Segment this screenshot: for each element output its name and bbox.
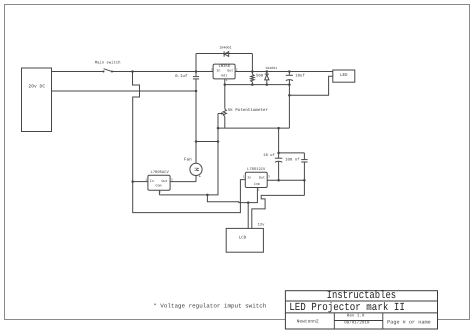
svg-text:Out: Out — [161, 179, 167, 184]
svg-text:3: 3 — [211, 69, 213, 72]
svg-text:1: 1 — [226, 79, 228, 82]
svg-text:Main switch: Main switch — [95, 61, 121, 66]
svg-text:Com: Com — [254, 182, 260, 187]
svg-text:1N4001: 1N4001 — [265, 66, 277, 70]
svg-text:LM350: LM350 — [219, 64, 231, 69]
svg-text:M: M — [193, 167, 200, 171]
svg-text:1N4001: 1N4001 — [219, 46, 231, 51]
svg-text:5k Potentiometer: 5k Potentiometer — [228, 107, 269, 113]
svg-text:2: 2 — [258, 188, 260, 191]
svg-text:3: 3 — [171, 179, 173, 182]
svg-text:Out: Out — [259, 175, 265, 180]
svg-text:0.1uf: 0.1uf — [175, 74, 188, 79]
svg-text:Page # or name: Page # or name — [387, 319, 431, 325]
svg-text:Adj: Adj — [221, 73, 227, 78]
svg-text:L78S12CV: L78S12CV — [247, 167, 266, 172]
svg-text:3: 3 — [268, 176, 270, 179]
svg-text:12v: 12v — [258, 222, 266, 227]
svg-text:Newtonn2: Newtonn2 — [297, 319, 319, 325]
svg-text:+: + — [199, 175, 202, 180]
svg-text:LED: LED — [340, 73, 348, 78]
svg-text:Rev 1.0: Rev 1.0 — [347, 313, 365, 318]
svg-text:* Voltage regulator imput swit: * Voltage regulator imput switch — [153, 302, 267, 309]
svg-text:L7805ACV: L7805ACV — [150, 170, 169, 175]
svg-text:Com: Com — [155, 184, 161, 189]
svg-text:Instructables: Instructables — [327, 290, 397, 302]
svg-text:2: 2 — [236, 69, 238, 72]
svg-text:In: In — [150, 179, 154, 184]
svg-text:20v DC: 20v DC — [29, 83, 46, 89]
svg-text:In: In — [247, 175, 251, 180]
svg-text:In: In — [216, 69, 220, 74]
svg-text:1: 1 — [145, 179, 147, 182]
svg-text:1: 1 — [243, 176, 245, 179]
svg-text:Out: Out — [227, 69, 233, 74]
svg-text:100 nf: 100 nf — [285, 157, 300, 162]
svg-text:Fan: Fan — [184, 158, 192, 163]
svg-text:LCD: LCD — [239, 236, 247, 241]
svg-text:LED Projector mark II: LED Projector mark II — [289, 302, 405, 314]
svg-text:10uf: 10uf — [295, 74, 305, 79]
svg-text:560: 560 — [256, 74, 264, 79]
svg-text:10 uf: 10 uf — [263, 153, 275, 158]
